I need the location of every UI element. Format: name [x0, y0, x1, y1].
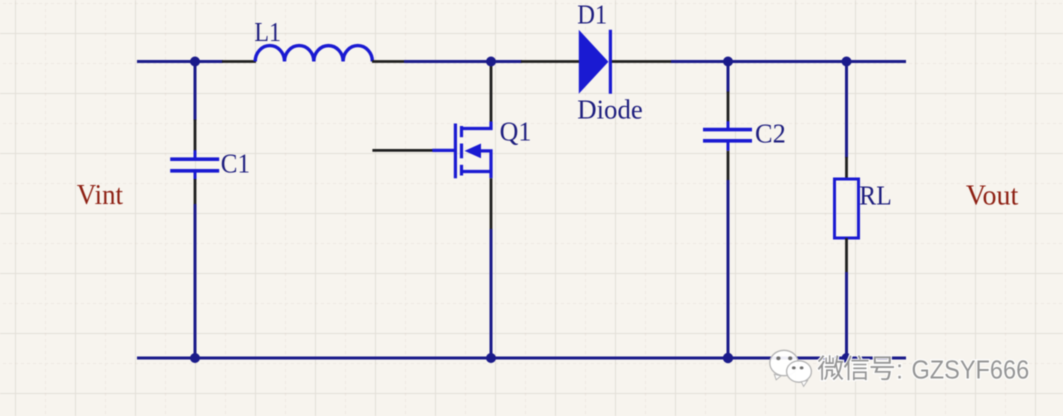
capacitor C1: [170, 150, 219, 180]
svg-text:C2: C2: [755, 119, 786, 149]
node junction bottom Q1: [486, 353, 496, 363]
diode D1 pin cathode (black): [612, 60, 672, 63]
capacitor C1 pin 1 (black): [194, 120, 197, 152]
svg-text:RL: RL: [859, 181, 891, 211]
watermark text hao: [871, 356, 895, 380]
transistor Q1 pin source (black): [490, 178, 493, 230]
node junction bottom C1: [190, 353, 200, 363]
wire top rail middle: [404, 60, 522, 63]
wire C2 lower: [727, 180, 730, 358]
node junction top C2: [723, 57, 733, 67]
inductor L1 coil: [255, 46, 372, 62]
wire C1 lower: [194, 204, 197, 358]
svg-text::: :: [896, 357, 903, 385]
watermark wechat icon: [770, 350, 812, 386]
node junction top C1: [190, 57, 200, 67]
resistor RL body: [835, 179, 859, 238]
diode D1 triangle: [579, 30, 609, 94]
wire bottom rail: [137, 357, 906, 360]
node junction top Q1: [486, 57, 496, 67]
inductor L1 pin 2 (black): [372, 60, 405, 63]
wire top rail right: [671, 60, 906, 63]
watermark text xin: [844, 355, 869, 380]
transistor Q1 symbol: [432, 122, 491, 179]
capacitor C2: [703, 121, 752, 151]
svg-text:D1: D1: [577, 0, 607, 29]
resistor RL pin 1 (black): [845, 157, 848, 180]
diode D1 pin anode (black): [521, 60, 580, 63]
resistor RL pin 2 (black): [845, 238, 848, 273]
transistor Q1 pin drain (black): [490, 62, 493, 123]
watermark text wei: [818, 355, 844, 380]
wire top rail left: [137, 60, 223, 63]
transistor Q1 arrow: [465, 144, 482, 159]
wire C2 upper: [727, 62, 730, 93]
svg-text:Vout: Vout: [966, 180, 1018, 211]
node junction bottom C2: [723, 353, 733, 363]
svg-text:Q1: Q1: [500, 117, 532, 147]
diode D1 cathode bar: [609, 30, 612, 94]
capacitor C2 pin 2 (black): [727, 151, 730, 181]
transistor Q1 pin gate (black): [372, 149, 433, 152]
capacitor C1 pin 2 (black): [194, 179, 197, 205]
node junction top RL: [842, 57, 852, 67]
node junction bottom RL: [842, 353, 852, 363]
wire RL lower: [845, 272, 848, 358]
capacitor C2 pin 1 (black): [727, 92, 730, 123]
wire C1 upper: [194, 62, 197, 121]
svg-text:L1: L1: [254, 17, 281, 47]
svg-text:GZSYF666: GZSYF666: [912, 357, 1030, 385]
svg-text:Diode: Diode: [577, 95, 643, 125]
svg-text:C1: C1: [221, 149, 250, 179]
svg-text:Vint: Vint: [77, 180, 123, 211]
wire Q1 source to bottom rail: [490, 229, 493, 358]
inductor L1 pin 1 (black): [222, 60, 256, 63]
wire RL upper: [845, 62, 848, 159]
